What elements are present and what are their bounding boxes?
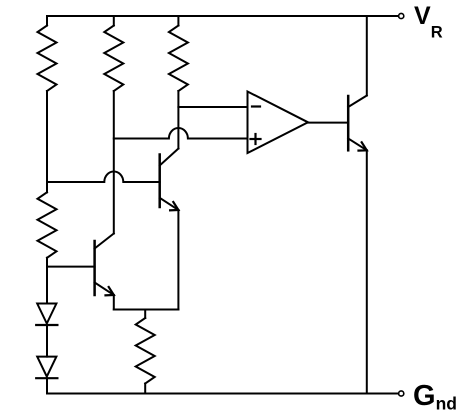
wire left column R1 bottom to R4 top <box>46 91 48 192</box>
transistor Q2 emitter diagonal with arrow <box>160 198 179 210</box>
transistor Q3 base bar <box>93 241 96 295</box>
terminal VR open circle <box>399 13 404 18</box>
op-amp U1 <box>248 92 309 154</box>
label VR <box>414 4 443 41</box>
transistor Q2 base bar <box>158 155 161 208</box>
op-amp U1 plus sign <box>251 138 261 140</box>
wire R5 bottom stub to bottom rail <box>144 384 146 394</box>
wire Q1 emitter to bottom rail <box>366 150 368 393</box>
wire R5 top stub <box>144 310 146 319</box>
wire R3 top stub <box>177 16 179 26</box>
diode D1 <box>37 304 56 324</box>
wire left column R4 bottom to D1 <box>46 258 48 304</box>
wire D2 to bottom rail <box>46 378 48 393</box>
transistor Q2 collector diagonal <box>160 149 179 166</box>
transistor Q1 collector diagonal <box>348 96 367 108</box>
resistor R2 <box>104 26 123 92</box>
terminal Gnd open circle <box>399 391 404 396</box>
wire non-inverting input with hop over column3 <box>114 128 248 139</box>
resistor R3 <box>169 26 188 92</box>
wire Q3 emitter down to emitter node <box>113 295 115 310</box>
wire R2 top stub <box>113 16 115 26</box>
wire top rail VR net <box>47 15 398 17</box>
transistor Q1 emitter diagonal with arrow <box>348 139 367 151</box>
wire emitter node horizontal <box>114 309 179 311</box>
transistor Q3 collector diagonal <box>95 234 114 249</box>
wire Q2 base from left column with hop over column2 <box>47 172 160 183</box>
transistor Q1 base bar <box>347 96 350 150</box>
wire op-amp output to Q1 base <box>308 122 348 124</box>
wire inverting input from node at R3 bottom <box>178 106 247 108</box>
wire column2 R2 bottom to Q3 collector corner <box>113 91 115 234</box>
wire Q1 collector to top rail <box>366 16 368 96</box>
label Gnd <box>413 382 457 413</box>
wire Q3 base from left column <box>47 266 95 268</box>
transistor Q3 emitter diagonal with arrow <box>95 283 114 296</box>
op-amp U1 minus sign <box>252 105 260 107</box>
wire R1 top stub <box>46 16 48 26</box>
wire column3 R3 bottom to Q2 collector corner <box>177 91 179 149</box>
diode D2 <box>37 357 56 377</box>
wire bottom rail Gnd net <box>47 393 398 395</box>
resistor R4 <box>38 192 57 257</box>
resistor R5 <box>136 318 155 384</box>
resistor R1 <box>38 26 57 92</box>
wire D1 to D2 <box>46 325 48 357</box>
wire Q2 emitter down to emitter node <box>177 210 179 310</box>
